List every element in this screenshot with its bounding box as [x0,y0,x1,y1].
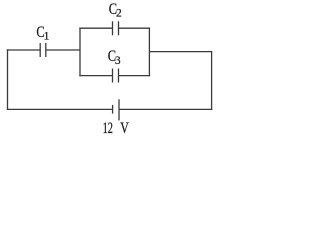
svg-text:12: 12 [103,120,113,137]
svg-text:1: 1 [44,30,50,42]
svg-text:V: V [120,120,129,137]
svg-text:2: 2 [116,8,122,20]
svg-text:3: 3 [115,55,121,67]
